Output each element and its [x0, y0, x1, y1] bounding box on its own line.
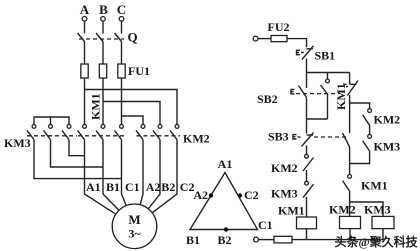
coil KM2 [340, 216, 361, 228]
svg-text:KM2: KM2 [183, 132, 210, 146]
wire C1 to motor [122, 140, 127, 206]
contactor KM1 aux NO (for coils KM2/KM3) [343, 175, 352, 217]
KM2 group linkage dashed [137, 135, 181, 137]
svg-text:KM2: KM2 [329, 203, 356, 217]
svg-text:头条@聚久科技: 头条@聚久科技 [335, 234, 419, 249]
delta diagram triangle [190, 173, 258, 230]
svg-text:KM1: KM1 [89, 93, 103, 120]
wire B1 to motor [103, 140, 119, 211]
contactor KM3 main contact 1 [27, 125, 36, 140]
wire branch phase B to KM2 contact 2 [103, 102, 160, 125]
svg-text:C1: C1 [125, 180, 140, 194]
wire terminal to bottom fuse [258, 239, 274, 241]
coil KM1 [297, 217, 317, 229]
svg-text:KM3: KM3 [4, 136, 31, 150]
delta node C2 dot [238, 193, 242, 197]
contactor KM3 NC interlock [303, 181, 314, 217]
wire KM2 coil to bottom rail [349, 229, 351, 240]
wire phase C down from FU1 [121, 78, 123, 124]
contactor KM2 main contact 3 [170, 125, 179, 140]
svg-text:KM1: KM1 [334, 83, 348, 110]
svg-text:SB1: SB1 [315, 49, 336, 63]
SB3 linkage dashed [314, 136, 346, 138]
wire branch phase C to KM2 contact 1 [122, 116, 144, 124]
wire A1 to motor [85, 140, 116, 215]
svg-text:KM2: KM2 [271, 161, 298, 175]
wire branch phase A to KM2 contact 3 [85, 90, 178, 125]
node C terminal [117, 2, 126, 21]
contactor KM3 aux NO [350, 135, 372, 164]
wire A2 to motor [140, 140, 143, 205]
wire right rail branch to KM2/KM3 chain [350, 103, 370, 109]
svg-text:SB3: SB3 [268, 130, 289, 144]
svg-text:B2: B2 [218, 233, 232, 247]
svg-text:A2: A2 [193, 188, 208, 202]
svg-text:SB2: SB2 [257, 92, 278, 106]
wire C2 to motor [152, 140, 177, 213]
svg-text:B1: B1 [186, 233, 200, 247]
switch Q pole 1 [78, 21, 85, 64]
fuse FU1 pole 3 [118, 64, 125, 78]
wire phase B down from FU1 [102, 78, 104, 124]
coil KM3 [372, 216, 394, 228]
wire KM3 coil to bottom rail [382, 229, 384, 240]
contactor KM1 aux NO (hold) [321, 73, 330, 120]
delta node B2 dot [224, 227, 228, 231]
contactor KM1 main contact 2 [96, 125, 105, 140]
contactor KM3 main contact 2 [44, 125, 53, 140]
motor M 3~ [112, 204, 157, 249]
contactor KM2 main contact 2 [153, 125, 162, 140]
contactor KM2 main contact 1 [136, 125, 145, 140]
wire B2 to motor [148, 140, 160, 209]
control top terminal [253, 36, 258, 41]
svg-text:C2: C2 [244, 188, 259, 202]
pushbutton SB2 (NO start) [291, 86, 307, 98]
svg-text:A2: A2 [146, 180, 161, 194]
wire KM3 contact2 to B1 node [51, 140, 104, 167]
svg-text:C: C [117, 2, 126, 17]
fuse FU2 bottom [274, 236, 292, 243]
contactor KM1 main contact 3 [115, 125, 124, 140]
wire KM3 star-point jumper [34, 117, 69, 125]
svg-text:FU1: FU1 [128, 64, 150, 78]
svg-text:KM3: KM3 [271, 187, 298, 201]
svg-text:KM2: KM2 [374, 113, 401, 127]
node A terminal [80, 2, 90, 21]
wire SB3 to KM2 NC [306, 146, 308, 155]
svg-text:A: A [80, 2, 90, 17]
SB2 linkage dashed [296, 93, 340, 95]
wire KM3 contact1 to C1 node [34, 140, 122, 179]
svg-text:A1: A1 [218, 157, 233, 171]
switch Q linkage dashed line [79, 38, 124, 40]
KM3 group linkage dashed [27, 135, 77, 137]
pushbutton SB2 NC half (right rail) [343, 73, 358, 134]
wire branch node to right rail [307, 72, 350, 74]
contactor KM2 aux NO [363, 109, 372, 135]
svg-text:M: M [128, 212, 140, 227]
svg-text:KM1: KM1 [278, 204, 305, 218]
fuse FU1 pole 2 [99, 64, 106, 78]
svg-text:B2: B2 [161, 180, 175, 194]
switch Q pole 3 [115, 21, 122, 64]
wire bottom rail [292, 239, 384, 241]
svg-text:B1: B1 [106, 180, 120, 194]
svg-text:B: B [99, 2, 108, 17]
node B terminal [99, 2, 108, 21]
svg-text:Q: Q [128, 30, 138, 45]
contactor KM3 main contact 3 [62, 125, 71, 140]
wire to KM3 coil [350, 202, 383, 216]
pushbutton SB3 (NC on left rail) [293, 133, 314, 147]
wire FU2 to SB1 [287, 39, 307, 48]
wire terminal to FU2 [258, 38, 271, 40]
contactor KM2 NC interlock [303, 154, 314, 181]
svg-text:A1: A1 [86, 180, 101, 194]
fuse FU1 pole 1 [81, 64, 88, 78]
svg-text:KM3: KM3 [374, 140, 401, 154]
svg-text:C2: C2 [180, 180, 195, 194]
wire KM1 coil to bottom rail [306, 229, 308, 240]
svg-text:FU2: FU2 [268, 20, 290, 34]
fuse FU2 [271, 36, 287, 42]
wire phase A down from FU1 [84, 78, 86, 124]
svg-text:KM1: KM1 [361, 179, 388, 193]
switch Q pole 2 [96, 21, 103, 64]
wire KM3 contact3 to A1 node [69, 140, 85, 156]
svg-text:C1: C1 [258, 218, 273, 232]
contactor KM1 main contact 1 [78, 125, 87, 140]
svg-text:KM3: KM3 [364, 203, 391, 217]
wire SB2/KM1aux bottom join [306, 97, 308, 133]
control bottom terminal [254, 237, 259, 242]
delta node A2 dot [209, 193, 213, 197]
svg-text:3~: 3~ [128, 227, 141, 241]
wire SB1 down to branch node [306, 59, 308, 89]
pushbutton SB1 (NC stop) [297, 46, 314, 60]
KM1 group linkage dashed [78, 135, 124, 137]
pushbutton SB3 NO half (right rail) [343, 133, 350, 175]
